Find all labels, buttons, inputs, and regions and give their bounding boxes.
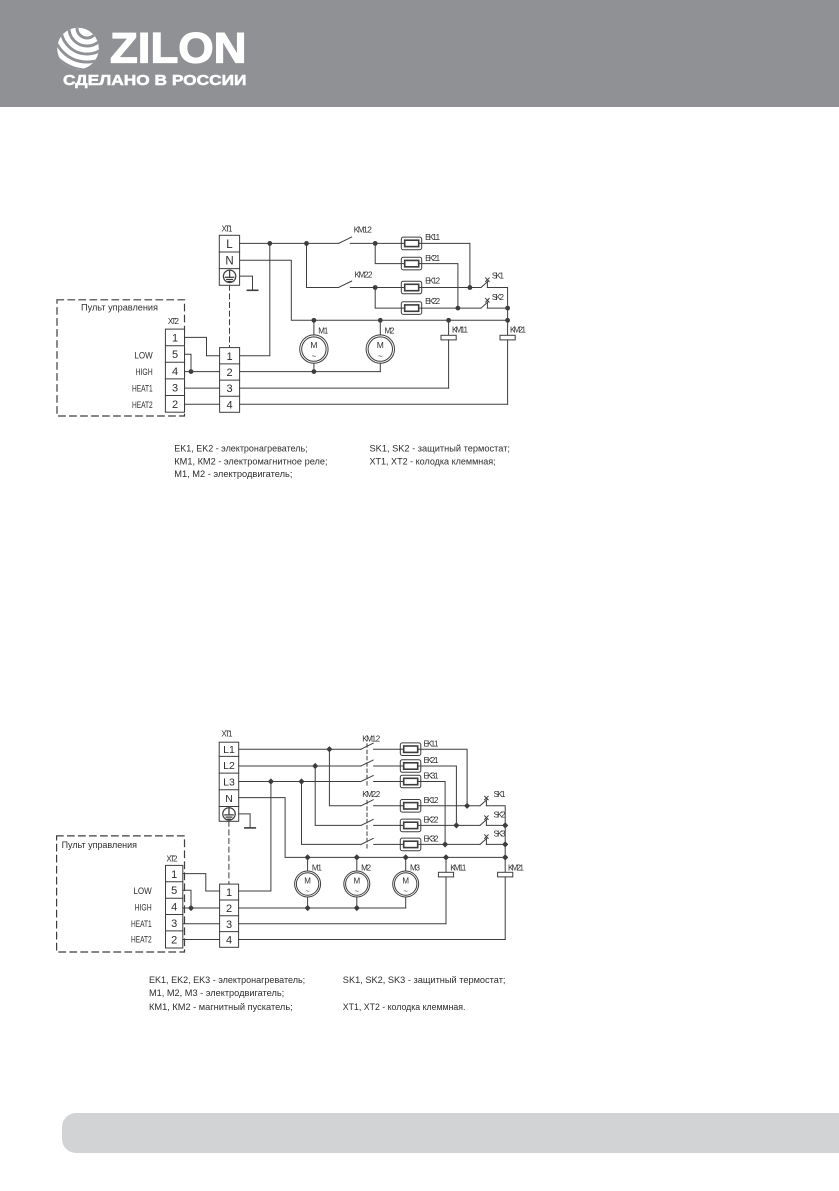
svg-text:XT2: XT2: [166, 855, 178, 864]
contact KM1.2 pole 3: [361, 776, 373, 782]
wire EK2.2 to SK2: [422, 307, 481, 309]
relay coil KM2.1: [500, 335, 515, 340]
svg-text:EK1, EK2 - электронагревател: EK1, EK2 - электронагреватель;: [174, 444, 307, 454]
wire L feed: [240, 242, 339, 244]
svg-text:2: 2: [172, 399, 178, 411]
svg-text:SK2: SK2: [492, 293, 505, 302]
linkage KM1.2 (dashed): [366, 744, 368, 787]
node bus M2: [378, 318, 383, 323]
wire XT2-1 to XT1-1: [183, 874, 220, 891]
node L3 branch to KM2.2: [298, 778, 304, 784]
node L junction to KM2.2: [304, 241, 309, 246]
thermostat SK3: [480, 835, 488, 845]
heater EK3.2: [400, 838, 421, 851]
wire XT1-3 KM1.1 row: [239, 923, 446, 925]
svg-text:КМ1, КМ2 - магнитный пускате: КМ1, КМ2 - магнитный пускатель;: [149, 1002, 293, 1012]
terminal block XT2: [166, 865, 183, 948]
node bus M2: [354, 854, 360, 860]
control panel dashed box: [57, 300, 185, 416]
svg-text:KM1.2: KM1.2: [362, 735, 381, 744]
wire XT2-5 jumper: [183, 890, 191, 908]
terminal block XT1 upper (L, N, PE): [219, 235, 239, 285]
wire EK2.1 to SK2 node: [421, 766, 457, 825]
control panel dashed box: [57, 836, 185, 952]
svg-text:4: 4: [171, 902, 177, 914]
node EK1.1/SK1 junction: [464, 803, 470, 809]
node jumper junction: [188, 905, 194, 911]
svg-text:~: ~: [378, 352, 383, 361]
node bus KM1.1: [446, 318, 451, 323]
wire branch to EK2.2: [375, 288, 401, 309]
wire KM2.1 coil to row4: [504, 877, 506, 940]
svg-text:2: 2: [171, 934, 177, 946]
svg-text:M2: M2: [385, 327, 396, 336]
svg-text:SK3: SK3: [494, 829, 507, 838]
heater EK1.1: [401, 237, 421, 250]
node EK2.1/SK2 junction: [456, 306, 461, 311]
wire KM2.2 pole1 to EK1.2: [374, 805, 401, 807]
contactor coil KM1.1: [438, 872, 453, 877]
svg-text:EK3.1: EK3.1: [424, 772, 440, 781]
heater EK3.1: [400, 775, 421, 788]
svg-text:HIGH: HIGH: [135, 903, 152, 914]
motor M2: [344, 871, 370, 897]
svg-text:3: 3: [172, 382, 178, 394]
svg-text:4: 4: [227, 399, 233, 411]
svg-text:L2: L2: [223, 760, 235, 772]
wire XT1-1 to L3: [239, 782, 271, 892]
wire KM1.1 coil to row3: [448, 340, 450, 388]
node L junction to control: [267, 241, 272, 246]
node EK branch junction: [373, 241, 378, 246]
svg-text:HEAT1: HEAT1: [132, 384, 153, 395]
contact KM1.2: [339, 237, 352, 243]
wire EK3.1 to SK3 node: [421, 782, 445, 845]
wire bus to M3: [405, 857, 407, 871]
wire KM1.2 pole3 to EK3.1: [374, 781, 401, 783]
contact KM2.2: [339, 281, 352, 287]
svg-text:L: L: [226, 239, 233, 251]
svg-text:4: 4: [172, 366, 178, 378]
node jumper junction: [189, 369, 194, 374]
svg-text:SK1, SK2 - защитный термоста: SK1, SK2 - защитный термостат;: [370, 444, 511, 454]
contact KM2.2 pole 2: [361, 819, 373, 825]
node M1 bottom junction: [312, 369, 317, 374]
svg-text:SK2: SK2: [494, 810, 507, 819]
svg-text:XT1, XT2 - колодка клеммная;: XT1, XT2 - колодка клеммная;: [370, 456, 496, 466]
wire M1 to motor row: [307, 897, 309, 908]
node EK1.2 branch junction: [373, 285, 378, 290]
node bus KM1.1: [443, 854, 449, 860]
svg-text:LOW: LOW: [134, 350, 152, 361]
svg-text:EK2.1: EK2.1: [424, 756, 440, 765]
svg-text:XT1: XT1: [222, 225, 234, 234]
svg-text:М1, М2 - электродвигатель;: М1, М2 - электродвигатель;: [174, 469, 292, 479]
wire XT1-4 KM2.1 row: [239, 939, 506, 941]
contactor coil KM2.1: [498, 872, 513, 877]
wire SK2 to rail: [486, 824, 505, 826]
wire EK2.1 to SK2 node: [422, 264, 458, 309]
node bus M3: [403, 854, 409, 860]
ZILON logo: [0, 0, 300, 107]
bottom gray bar: [62, 1113, 839, 1153]
svg-text:3: 3: [227, 383, 233, 395]
svg-text:HEAT2: HEAT2: [131, 934, 152, 945]
svg-text:3: 3: [171, 918, 177, 930]
contact KM1.2 pole 2: [361, 760, 373, 766]
contact KM2.2 pole 1: [361, 800, 373, 806]
svg-text:XT2: XT2: [168, 317, 180, 326]
wire KM1.2 pole2 to EK2.1: [374, 765, 401, 767]
svg-text:M2: M2: [361, 864, 372, 873]
heater EK2.1: [401, 257, 421, 270]
linkage KM2.2 (dashed): [366, 800, 368, 849]
svg-text:EK1.1: EK1.1: [425, 233, 441, 242]
wire XT2-4 to XT1-2: [185, 371, 220, 373]
wire XT1-4 KM2.1 row: [240, 403, 508, 405]
svg-text:EK3.2: EK3.2: [424, 835, 440, 844]
svg-text:XT1: XT1: [221, 730, 233, 739]
wire L3 to KM2.2 pole3: [302, 782, 362, 845]
svg-text:M: M: [402, 876, 409, 885]
node bus M1: [312, 318, 317, 323]
wire M2 to low-speed row: [379, 363, 381, 371]
svg-text:M1: M1: [312, 864, 323, 873]
wire SK1 to rail and KM2.1 coil: [487, 288, 507, 336]
svg-text:KM2.2: KM2.2: [355, 271, 374, 280]
wire EK1.2 to SK1: [422, 287, 481, 289]
wire XT1-2 motor row: [240, 371, 381, 373]
svg-text:EK1, EK2, EK3 - электронагре: EK1, EK2, EK3 - электронагреватель;: [149, 975, 305, 985]
wire L1 to KM2.2 pole1: [329, 749, 361, 806]
ground: [247, 289, 257, 291]
wire bus to M1: [307, 857, 309, 871]
svg-text:SK1: SK1: [492, 272, 505, 281]
svg-text:4: 4: [226, 935, 232, 947]
svg-text:XT1, XT2 - колодка клеммная.: XT1, XT2 - колодка клеммная.: [343, 1002, 466, 1012]
thermostat SK2: [480, 816, 488, 826]
wire M3 to motor row: [405, 897, 407, 908]
wire KM1.2 out to EK1.1: [350, 242, 401, 244]
svg-text:EK1.1: EK1.1: [424, 739, 440, 748]
wire EK2.2 to SK2: [421, 824, 480, 826]
svg-text:M: M: [377, 340, 384, 350]
wire L3 feed: [239, 781, 361, 783]
svg-text:1: 1: [172, 333, 178, 345]
wire L1 feed: [239, 748, 361, 750]
heater EK2.2: [401, 302, 421, 315]
relay coil KM1.1: [441, 335, 456, 340]
svg-text:Пульт управления: Пульт управления: [62, 840, 138, 850]
wire SK3 to rail: [486, 843, 505, 845]
wire XT2-3 to XT1-3: [185, 387, 220, 389]
svg-text:Пульт управления: Пульт управления: [81, 303, 158, 313]
svg-text:EK2.2: EK2.2: [425, 297, 441, 306]
contact KM2.2 pole 3: [361, 838, 373, 844]
wire bus to KM1.1 coil: [448, 320, 450, 335]
svg-text:5: 5: [171, 885, 177, 897]
PE terminal earth symbol: [223, 808, 235, 820]
wire SK2 to rail: [487, 307, 507, 309]
motor M1: [300, 335, 328, 363]
ground: [245, 827, 255, 829]
svg-text:M: M: [353, 876, 360, 885]
svg-text:M1: M1: [318, 327, 329, 336]
wire EK1.2 to SK1: [421, 805, 480, 807]
svg-text:~: ~: [404, 886, 409, 895]
wire SK1 to rail and KM2.1 coil: [486, 806, 505, 873]
svg-text:~: ~: [305, 886, 310, 895]
terminal block XT2: [165, 329, 184, 412]
svg-text:EK1.2: EK1.2: [425, 277, 441, 286]
svg-text:SK1, SK2, SK3 - защитный тер: SK1, SK2, SK3 - защитный термостат;: [343, 975, 506, 985]
svg-text:L1: L1: [223, 744, 235, 756]
svg-text:1: 1: [227, 351, 233, 363]
svg-text:EK2.2: EK2.2: [424, 816, 440, 825]
svg-text:LOW: LOW: [133, 886, 151, 897]
svg-text:М3: М3: [410, 864, 421, 873]
wire XT2-2 to XT1-4: [185, 403, 220, 405]
wire bus to M1: [313, 320, 315, 335]
wire EK3.2 to SK3: [421, 843, 480, 845]
wire control cable (dashed) XT1 upper to lower: [228, 821, 230, 884]
terminal block XT1 lower (1-4): [220, 884, 239, 947]
svg-text:EK2.1: EK2.1: [425, 254, 441, 263]
node rail/bus junction: [505, 318, 510, 323]
wire PE to ground: [239, 814, 250, 828]
svg-text:EK1.2: EK1.2: [424, 796, 440, 805]
wire L2 to KM2.2 pole2: [315, 766, 361, 825]
motor M3: [393, 871, 419, 897]
thermostat SK1: [480, 796, 488, 806]
wire KM2.2 pole2 to EK2.2: [374, 824, 401, 826]
wire XT1-1 to L: [240, 243, 270, 355]
svg-text:KM1.2: KM1.2: [354, 226, 373, 235]
wire N bus: [240, 260, 508, 320]
svg-text:1: 1: [171, 869, 177, 881]
wire bus to M2: [356, 857, 358, 871]
wire KM1.2 pole1 to EK1.1: [374, 748, 401, 750]
terminal block XT1 lower (1-4): [220, 348, 240, 413]
svg-text:N: N: [225, 256, 233, 268]
motor M1: [295, 871, 321, 897]
wire XT2-5 jumper: [185, 354, 192, 371]
svg-text:KM2.2: KM2.2: [362, 790, 381, 799]
node L1 branch: [326, 746, 332, 752]
wire KM1.1 coil to row3: [445, 877, 447, 924]
svg-text:1: 1: [226, 887, 232, 899]
node SK2/rail junction: [502, 822, 508, 828]
node M2 bottom junction: [354, 905, 360, 911]
wire KM2.2 out to EK1.2: [350, 287, 401, 289]
heater EK1.2: [401, 281, 421, 294]
wire bus to M2: [379, 320, 381, 335]
wire XT2-4 to XT1-2: [183, 907, 220, 909]
wire L2 feed: [239, 765, 361, 767]
node EK2.1/SK2 junction: [453, 822, 459, 828]
heater EK2.1: [400, 760, 421, 773]
heater EK2.2: [400, 819, 421, 832]
wire PE to ground: [240, 276, 253, 290]
thermostat SK1: [481, 278, 489, 288]
wire branch to EK2.1: [375, 243, 401, 263]
svg-text:~: ~: [312, 352, 317, 361]
svg-text:KM2.1: KM2.1: [510, 326, 527, 335]
wire EK1.1 to SK1 node: [421, 749, 467, 806]
motor M2: [366, 335, 394, 363]
node L3 branch to control: [268, 778, 274, 784]
node SK2/rail junction: [505, 306, 510, 311]
svg-text:N: N: [225, 793, 233, 805]
thermostat SK2: [481, 299, 489, 309]
svg-text:~: ~: [355, 886, 360, 895]
svg-text:2: 2: [226, 903, 232, 915]
contact KM1.2 pole 1: [361, 743, 373, 749]
wire EK1.1 to SK1 node: [422, 243, 470, 287]
svg-text:SK1: SK1: [494, 790, 507, 799]
wire control cable (dashed) XT1 upper to lower: [229, 285, 231, 347]
node EK3.1/SK3 junction: [442, 841, 448, 847]
node SK3/rail junction: [502, 841, 508, 847]
wire XT2-3 to XT1-3: [183, 923, 220, 925]
svg-text:5: 5: [172, 349, 178, 361]
wire XT1-3 KM1.1 row: [240, 387, 449, 389]
svg-text:M: M: [310, 340, 317, 350]
heater EK1.1: [400, 743, 421, 756]
svg-text:3: 3: [226, 919, 232, 931]
svg-text:M: M: [304, 876, 311, 885]
svg-text:КМ1, КМ2 - электромагнитное: КМ1, КМ2 - электромагнитное реле;: [174, 456, 327, 466]
wire L to KM2.2: [307, 243, 339, 287]
node rail/bus junction: [502, 854, 508, 860]
wire N bus: [239, 798, 506, 858]
wire bus to KM1.1 coil: [445, 857, 447, 872]
wire KM2.1 coil to row4: [507, 340, 509, 404]
svg-text:KM1.1: KM1.1: [450, 864, 467, 873]
terminal block XT1 upper (L1, L2, L3, N, PE): [219, 742, 239, 821]
svg-text:KM2.1: KM2.1: [508, 864, 525, 873]
svg-text:HIGH: HIGH: [136, 367, 153, 378]
PE terminal earth symbol: [223, 270, 235, 282]
svg-text:HEAT1: HEAT1: [131, 919, 152, 930]
node M1 bottom junction: [305, 905, 311, 911]
node EK1.1/SK1 junction: [468, 285, 473, 290]
node L2 branch: [312, 763, 318, 769]
svg-text:2: 2: [227, 367, 233, 379]
svg-text:KM1.1: KM1.1: [452, 326, 469, 335]
logo globe: [37, 0, 137, 78]
wire M1 to low-speed row: [313, 363, 315, 371]
svg-text:L3: L3: [223, 777, 235, 789]
node bus M1: [305, 854, 311, 860]
header gray band: [0, 0, 839, 107]
wire KM2.2 pole3 to EK3.2: [374, 843, 401, 845]
svg-text:HEAT2: HEAT2: [132, 400, 153, 411]
heater EK1.2: [400, 800, 421, 813]
wire XT2-2 to XT1-4: [183, 939, 220, 941]
svg-text:М1, М2, М3 - электродвигател: М1, М2, М3 - электродвигатель;: [149, 988, 284, 998]
wire XT1-2 motor row: [239, 907, 406, 909]
wire M2 to motor row: [356, 897, 358, 908]
wire XT2-1 to XT1-1: [185, 337, 220, 355]
